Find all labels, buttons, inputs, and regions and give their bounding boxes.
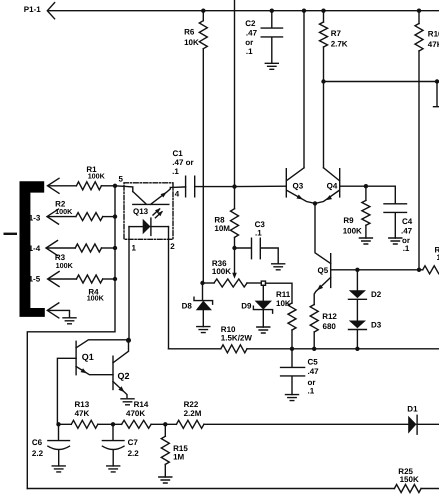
resistor R9 — [362, 186, 370, 238]
node Q3 Q4 common emitter — [313, 201, 317, 205]
node row3 junction — [113, 246, 117, 250]
svg-text:R12: R12 — [322, 312, 337, 321]
wire opto pin1 down — [128, 227, 130, 341]
wire Q3 emitter — [287, 191, 315, 204]
svg-text:.47: .47 — [401, 227, 413, 236]
label R36 value — [212, 259, 231, 276]
svg-text:4: 4 — [175, 189, 180, 198]
svg-text:1-5: 1-5 — [29, 274, 41, 283]
wire R7 to right stub — [324, 81, 438, 83]
label R10 value — [221, 325, 253, 343]
svg-text:2: 2 — [170, 242, 175, 251]
wire opto pin4 to C1 — [173, 186, 186, 189]
label Q3 — [293, 182, 304, 191]
connector shell bracket — [20, 181, 45, 317]
resistor R16 — [415, 11, 423, 270]
svg-text:5: 5 — [119, 175, 124, 184]
label Q1 — [82, 352, 94, 362]
svg-text:Q1: Q1 — [82, 352, 94, 362]
svg-text:10K: 10K — [184, 38, 199, 47]
capacitor C2 — [261, 11, 282, 64]
resistor R4 — [76, 275, 115, 283]
resistor R10 — [221, 345, 247, 353]
svg-text:47K: 47K — [428, 40, 439, 49]
svg-text:10K: 10K — [276, 299, 291, 308]
connector pin arrow row1 — [48, 178, 60, 193]
label R17 partial — [435, 246, 439, 262]
svg-text:R7: R7 — [331, 29, 342, 38]
wire vertical input line — [234, 0, 236, 187]
phototransistor emitter arrow — [161, 192, 167, 197]
svg-text:.47: .47 — [246, 29, 258, 38]
ground connector — [63, 318, 76, 324]
svg-text:1-4: 1-4 — [29, 244, 41, 253]
label R4 value — [87, 287, 105, 302]
node C1 right — [232, 184, 236, 188]
node Q1 Q2 collectors — [126, 338, 131, 343]
ground R9 — [359, 238, 372, 244]
svg-text:.47: .47 — [308, 367, 320, 376]
label R8 value — [214, 215, 230, 233]
resistor R12 — [310, 305, 318, 349]
svg-text:C5: C5 — [308, 358, 319, 367]
svg-text:.47 or: .47 or — [172, 158, 193, 167]
wire Q3Q4 emitters to Q5 collector — [315, 203, 331, 263]
svg-text:R22: R22 — [184, 400, 199, 409]
zener D9 — [253, 285, 272, 327]
label R6 value — [184, 28, 199, 47]
wire row4 — [49, 278, 77, 280]
svg-text:Q5: Q5 — [318, 266, 329, 275]
zener D8 — [194, 283, 213, 327]
label C7 value — [128, 438, 140, 458]
resistor R8 — [231, 187, 239, 248]
label opto pin 5 — [119, 175, 124, 184]
label R14 value — [126, 400, 149, 418]
resistor R13 — [71, 420, 98, 428]
svg-text:D9: D9 — [241, 302, 252, 311]
node R9 top — [364, 184, 368, 188]
capacitor C4 — [384, 204, 407, 238]
svg-text:2.2: 2.2 — [128, 449, 140, 458]
label R13 value — [75, 400, 90, 418]
phototransistor Q13 — [133, 187, 173, 204]
ground C4 — [389, 238, 402, 244]
wire trimpot wiper — [234, 248, 236, 274]
node Q5 base D2 — [355, 268, 359, 272]
svg-text:Q3: Q3 — [293, 182, 304, 191]
resistor R1 — [76, 182, 115, 190]
resistor R17 partial — [423, 266, 439, 274]
svg-text:.1: .1 — [246, 47, 253, 56]
label R2 value — [55, 199, 73, 216]
svg-text:100K: 100K — [88, 171, 106, 180]
node row4 junction — [113, 277, 117, 281]
ground C3 — [272, 264, 285, 270]
svg-text:R14: R14 — [134, 400, 149, 409]
connector pin arrow P1-1 — [47, 3, 54, 19]
node D8 R36 junction — [200, 281, 204, 285]
opto light arrow 2 — [155, 211, 162, 218]
label R11 value — [276, 290, 291, 308]
wire opto pin2 down — [168, 227, 170, 349]
label C5 value — [308, 358, 320, 396]
svg-text:100K: 100K — [87, 294, 105, 303]
label opto pin 2 — [170, 242, 175, 251]
wire right edge stub — [434, 82, 439, 107]
svg-text:D8: D8 — [182, 302, 193, 311]
transistor Q3 base bar — [285, 169, 287, 197]
ground C6 — [52, 466, 65, 472]
node R6 top — [201, 9, 205, 13]
label opto pin 1 — [132, 244, 137, 253]
wire Q4 collector — [323, 82, 325, 168]
node R36 right square — [261, 281, 265, 285]
svg-text:.1: .1 — [403, 244, 410, 253]
resistor R25 — [394, 485, 421, 493]
node bottom C6 — [56, 422, 60, 426]
wire ground row — [48, 310, 69, 317]
capacitor C3 — [235, 238, 279, 264]
node row1 junction — [113, 184, 117, 188]
wire Q4 emitter — [315, 191, 339, 204]
resistor R22 — [176, 420, 204, 428]
label pin 1-3 — [29, 214, 41, 223]
svg-text:R6: R6 — [184, 28, 195, 37]
label C2 value — [245, 19, 257, 56]
transistor Q2 base bar — [112, 356, 114, 389]
wire middle rail — [169, 348, 439, 350]
label pin 1-5 — [29, 274, 41, 283]
wire Q4 collector diagonal — [324, 168, 340, 181]
wire bottom feedback line — [27, 488, 439, 490]
wire row2 — [48, 216, 76, 218]
Q3 emitter arrow — [297, 195, 304, 200]
label R25 value — [398, 467, 419, 484]
ground D9 — [257, 327, 270, 333]
label Q4 — [327, 182, 338, 191]
svg-text:R10: R10 — [221, 325, 236, 334]
wire Q2 collector — [113, 340, 129, 363]
svg-text:100K: 100K — [212, 267, 231, 276]
svg-text:R11: R11 — [276, 290, 291, 299]
capacitor C7 — [102, 424, 124, 466]
svg-text:Q4: Q4 — [327, 182, 338, 191]
label C3 value — [255, 220, 266, 238]
transistor Q4 base bar — [339, 169, 341, 197]
wire Q5 base — [331, 269, 423, 271]
diode D2 — [349, 270, 367, 300]
Q2 emitter arrow — [118, 386, 124, 392]
connector pin arrow row3 — [46, 241, 58, 256]
wire Q1 collector — [76, 340, 128, 348]
optocoupler U-Q13 package box — [124, 183, 173, 240]
wire Q3 collector diagonal — [287, 168, 304, 181]
label R3 value — [55, 253, 74, 270]
svg-text:680: 680 — [323, 322, 337, 331]
svg-text:47K: 47K — [75, 409, 90, 418]
label R15 value — [173, 444, 188, 462]
label R16 value — [428, 29, 439, 49]
Q4 emitter arrow — [326, 195, 333, 200]
svg-text:100K: 100K — [55, 207, 73, 216]
svg-text:P1-1: P1-1 — [24, 5, 41, 14]
svg-text:100K: 100K — [343, 226, 362, 235]
label Q5 — [318, 266, 329, 275]
trimpot wiper arrow — [232, 273, 237, 279]
capacitor C1 — [186, 176, 195, 197]
svg-text:470K: 470K — [126, 409, 145, 418]
label C1 value — [172, 149, 194, 176]
svg-text:2.2M: 2.2M — [184, 409, 202, 418]
wire row1 — [49, 185, 77, 187]
node row2 junction — [113, 214, 117, 218]
label D1 — [407, 404, 418, 413]
diode D1 — [408, 415, 439, 434]
svg-text:10M: 10M — [214, 224, 230, 233]
wire Q3 collector — [303, 11, 305, 168]
ground C5 — [286, 395, 299, 401]
ground R15 — [159, 477, 172, 483]
label R22 value — [184, 400, 202, 418]
wire Q4 base to R9 — [340, 186, 396, 204]
svg-text:C7: C7 — [128, 438, 139, 447]
svg-text:D2: D2 — [371, 290, 382, 299]
label Q13 — [133, 207, 149, 216]
svg-text:C1: C1 — [173, 149, 184, 158]
label R7 value — [331, 29, 348, 49]
wire C1 to node — [195, 186, 235, 188]
wire Q5 emitter — [314, 277, 331, 304]
ground C2 — [265, 63, 278, 69]
ground Q2 — [121, 399, 134, 405]
resistor R3 — [75, 244, 115, 252]
node Q5 base R16 — [417, 268, 421, 272]
wire Q2 emitter — [113, 382, 127, 398]
node C2 top — [270, 9, 274, 13]
svg-text:1: 1 — [132, 244, 137, 253]
LED anode wire — [129, 226, 143, 228]
capacitor C5 — [281, 349, 305, 395]
Q1 emitter arrow — [81, 368, 88, 373]
svg-text:R9: R9 — [343, 216, 354, 225]
svg-text:or: or — [245, 38, 253, 47]
wire opto pin5 lead — [115, 186, 133, 192]
label pin 1-4 — [29, 244, 41, 253]
label C4 value — [401, 217, 413, 253]
label D3 — [371, 320, 382, 329]
capacitor C6 — [48, 424, 70, 466]
svg-text:D3: D3 — [371, 320, 382, 329]
resistor R7 — [320, 11, 328, 82]
svg-text:R15: R15 — [173, 444, 188, 453]
wire Q1 base — [57, 358, 76, 424]
node bottom C7 — [111, 422, 115, 426]
ground D8 — [197, 327, 210, 333]
node rail D3 — [355, 347, 359, 351]
svg-text:1.5K/2W: 1.5K/2W — [221, 334, 253, 343]
Q5 emitter arrow — [317, 285, 323, 291]
resistor R6 — [199, 11, 207, 283]
polarity minus sign — [4, 233, 18, 235]
svg-text:100K: 100K — [56, 261, 74, 270]
wire summing node feedback loop — [27, 186, 115, 489]
trimpot R36 — [203, 279, 262, 287]
LED in optocoupler — [143, 218, 151, 235]
svg-text:1-3: 1-3 — [29, 214, 41, 223]
label D8 — [182, 302, 193, 311]
resistor R14 — [122, 420, 152, 428]
resistor R15 — [161, 424, 169, 477]
svg-text:2.7K: 2.7K — [331, 40, 348, 49]
transistor Q5 base bar — [330, 254, 332, 288]
node R8 bottom — [232, 246, 236, 250]
resistor R11 — [266, 283, 297, 349]
opto light arrow 1 — [153, 208, 160, 215]
svg-text:2.2: 2.2 — [32, 449, 44, 458]
wire bottom rail — [57, 423, 408, 425]
node bottom R15 — [163, 422, 167, 426]
svg-text:150K: 150K — [400, 475, 419, 484]
svg-text:R16: R16 — [428, 29, 439, 38]
label C6 value — [32, 438, 44, 458]
label D9 — [241, 302, 252, 311]
svg-text:D1: D1 — [407, 404, 418, 413]
wire C1 node to Q3 base — [235, 185, 287, 187]
wire Q1 emitter — [76, 367, 113, 375]
connector pin arrow row2 — [47, 209, 59, 224]
ground C7 — [107, 466, 120, 472]
connector pin arrow ground row — [47, 303, 59, 318]
svg-text:1M: 1M — [173, 453, 184, 462]
label R12 value — [322, 312, 337, 331]
node R7 bottom junction — [321, 79, 325, 83]
transistor Q1 base bar — [75, 341, 77, 374]
svg-text:.1: .1 — [172, 167, 179, 176]
svg-text:C4: C4 — [402, 217, 413, 226]
svg-text:C3: C3 — [255, 220, 266, 229]
svg-text:Q13: Q13 — [133, 207, 149, 216]
label P1-1 — [24, 5, 41, 14]
label opto pin 4 — [175, 189, 180, 198]
label R9 value — [343, 216, 362, 235]
node R16 top — [417, 9, 421, 13]
svg-text:.1: .1 — [308, 386, 315, 395]
svg-text:C6: C6 — [32, 438, 43, 447]
diode D3 — [349, 299, 367, 349]
node Q3 collector rail — [302, 9, 306, 13]
svg-text:Q2: Q2 — [118, 371, 130, 381]
LED cathode wire — [151, 226, 169, 228]
svg-text:R13: R13 — [75, 400, 90, 409]
wire top supply rail — [49, 10, 439, 12]
svg-text:C2: C2 — [245, 19, 256, 28]
label R1 value — [86, 165, 105, 180]
svg-text:.1: .1 — [255, 229, 262, 238]
connector pin arrow row4 — [48, 272, 60, 287]
node R7 top — [321, 9, 325, 13]
label D2 — [371, 290, 382, 299]
label Q2 — [118, 371, 130, 381]
resistor R2 — [76, 213, 115, 221]
node right stub junction — [435, 79, 439, 83]
node rail R12 — [312, 347, 316, 351]
node rail R11 — [290, 347, 294, 351]
svg-text:R8: R8 — [214, 215, 225, 224]
wire row3 — [47, 247, 75, 249]
